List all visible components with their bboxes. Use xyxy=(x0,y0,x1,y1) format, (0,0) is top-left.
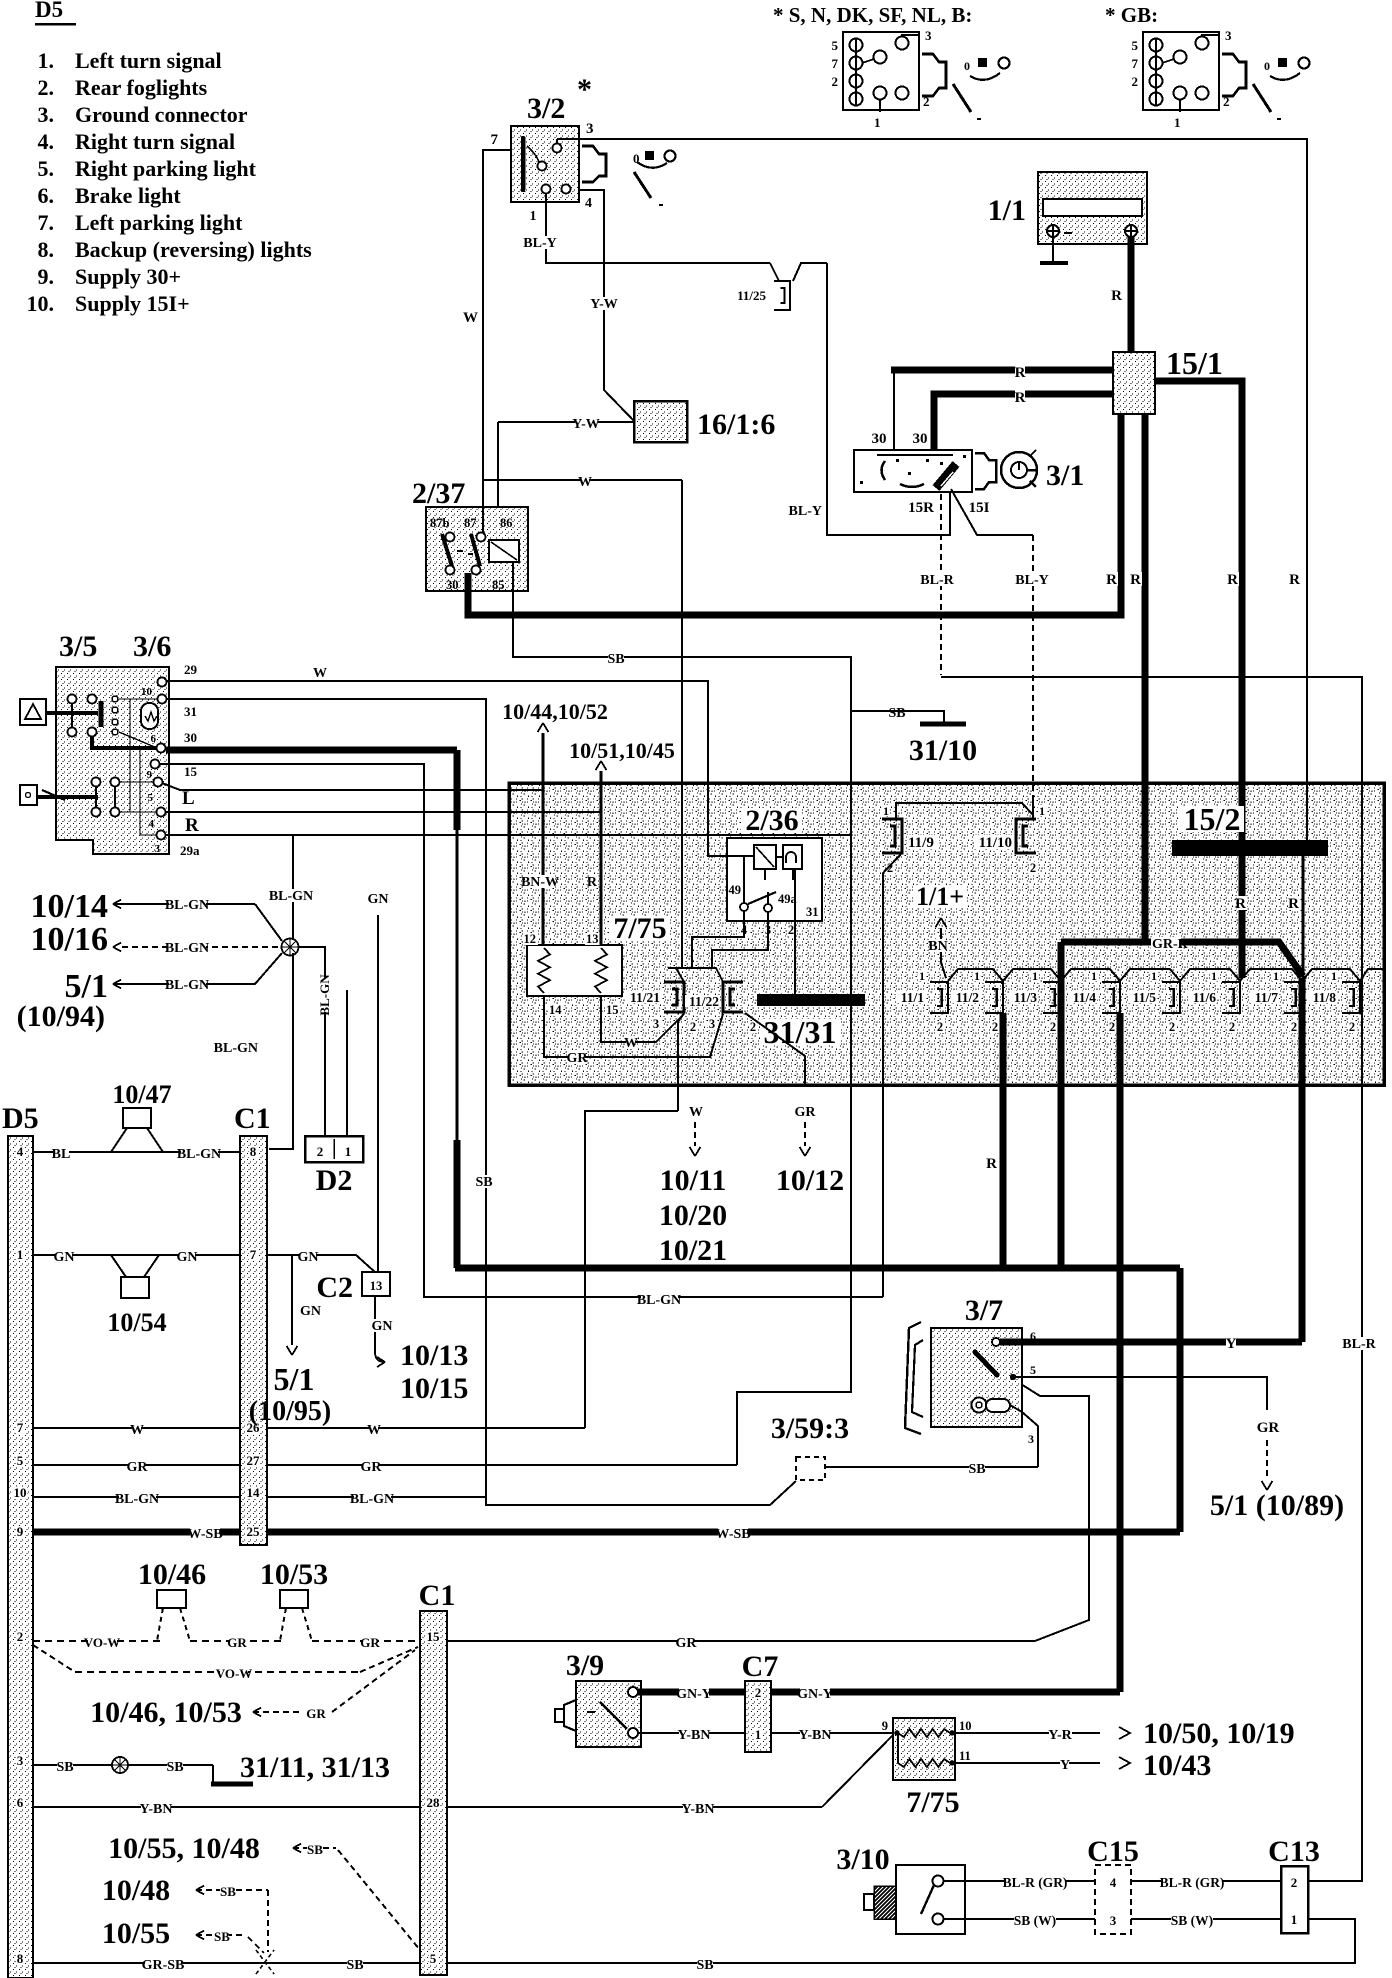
svg-text:7: 7 xyxy=(17,1420,24,1435)
svg-text:5/1 (10/89): 5/1 (10/89) xyxy=(1210,1489,1344,1522)
svg-text:8: 8 xyxy=(17,1951,24,1966)
wire 2/36 pin 3 to chain xyxy=(767,912,769,921)
wire W from 3/6 pin 29 xyxy=(166,681,708,838)
hazard feed bar xyxy=(46,711,98,715)
svg-text:1: 1 xyxy=(874,115,881,130)
connector bar C1 upper xyxy=(240,1136,267,1545)
svg-text:GR: GR xyxy=(127,1460,149,1475)
wire D2 pin 1 riser xyxy=(346,990,348,1136)
svg-text:BL-GN: BL-GN xyxy=(165,978,209,993)
lamp 10/53 box xyxy=(280,1590,308,1608)
svg-text:1: 1 xyxy=(530,209,537,224)
wire 11/9 pin 2 to BL-GN riser xyxy=(883,853,902,1297)
svg-text:10/15: 10/15 xyxy=(400,1372,468,1405)
wire 11/21 pin 2 down (W to 10/11) xyxy=(678,1013,684,1022)
splice symbol on SB row xyxy=(112,1757,128,1773)
connector 11/3 xyxy=(1043,982,1061,1013)
ground bar 31/31 xyxy=(757,994,865,1006)
svg-text:Supply 15I+: Supply 15I+ xyxy=(75,291,190,316)
svg-text:* GB:: * GB: xyxy=(1105,3,1158,27)
flasher 2/36 coil xyxy=(754,845,776,869)
svg-text:3: 3 xyxy=(709,1017,715,1031)
svg-text:14: 14 xyxy=(247,1485,261,1500)
wire 15/2 stub to 11/7 xyxy=(1302,856,1305,978)
svg-text:L: L xyxy=(182,788,195,809)
switch 3/10 box xyxy=(896,1865,965,1934)
svg-text:2/36: 2/36 xyxy=(745,804,798,837)
svg-text:GR: GR xyxy=(567,1051,589,1066)
wire to 10/14 xyxy=(255,904,282,941)
splice BL-GN xyxy=(282,939,299,956)
bus bar 15/2 label xyxy=(1179,806,1244,832)
svg-text:7: 7 xyxy=(1132,56,1139,71)
svg-text:4: 4 xyxy=(17,1144,24,1159)
lamp 10/53 dashed vee xyxy=(280,1608,286,1641)
lamp 10/46 box xyxy=(157,1590,186,1608)
ignition 3/1 key symbol xyxy=(1001,452,1037,488)
svg-text:9: 9 xyxy=(882,1719,888,1733)
svg-text:10/50, 10/19: 10/50, 10/19 xyxy=(1143,1717,1295,1750)
switch lower connector symbol xyxy=(20,785,37,805)
wire R with arrow 10/51,10/45 xyxy=(600,771,603,945)
svg-text:GN-Y: GN-Y xyxy=(676,1687,712,1702)
svg-text:SB (W): SB (W) xyxy=(1171,1913,1213,1928)
svg-text:(10/94): (10/94) xyxy=(17,1000,105,1033)
svg-text:31/31: 31/31 xyxy=(764,1014,837,1050)
svg-text:Y-R: Y-R xyxy=(1048,1728,1072,1743)
ignition 3/1 connector tab xyxy=(975,453,996,489)
svg-text:5: 5 xyxy=(1132,38,1139,53)
svg-text:31: 31 xyxy=(184,704,197,719)
switch 3/6 small contacts column xyxy=(112,696,118,702)
connector 11/21 xyxy=(664,982,684,1012)
svg-text:SB: SB xyxy=(220,1884,236,1899)
svg-text:Right parking light: Right parking light xyxy=(75,156,257,181)
module 1/1 ground stub xyxy=(1052,237,1054,262)
resistor 7/75b pin labels xyxy=(881,1720,890,1732)
svg-text:3: 3 xyxy=(1225,28,1232,43)
svg-text:W: W xyxy=(624,1036,638,1051)
svg-text:W: W xyxy=(463,310,478,326)
svg-text:11: 11 xyxy=(959,1749,971,1763)
svg-text:9.: 9. xyxy=(38,264,55,289)
svg-text:30: 30 xyxy=(872,431,887,447)
svg-text:11/1: 11/1 xyxy=(901,990,925,1005)
svg-text:GR-SB: GR-SB xyxy=(142,1958,185,1973)
svg-text:10/11: 10/11 xyxy=(660,1164,727,1197)
svg-text:13: 13 xyxy=(586,932,599,946)
resistor 7/75b elements xyxy=(898,1729,950,1737)
svg-text:3: 3 xyxy=(1028,1432,1034,1446)
wire BL-R (GR) C15 to C13 xyxy=(1131,1880,1281,1882)
svg-text:86: 86 xyxy=(500,516,513,530)
lamp 10/54 box xyxy=(121,1277,149,1298)
svg-text:49: 49 xyxy=(729,883,742,897)
svg-text:R: R xyxy=(986,1156,997,1172)
svg-text:2: 2 xyxy=(1291,1020,1297,1034)
svg-text:11/22: 11/22 xyxy=(689,994,719,1009)
svg-text:11/8: 11/8 xyxy=(1313,990,1337,1005)
svg-text:GN: GN xyxy=(372,1319,393,1334)
wire GR from 7/75 pin 14 to 11/22 pin 3 xyxy=(544,996,723,1057)
svg-text:3: 3 xyxy=(17,1753,24,1768)
wire 1/1+ BN arrow to 11/1 pin 1 xyxy=(941,928,946,978)
svg-text:10/46, 10/53: 10/46, 10/53 xyxy=(90,1696,242,1729)
wire 11/22 pin 2 down (GR to 10/12) xyxy=(745,1013,805,1085)
wire Y thick from 3/7 pin 6 xyxy=(1000,1339,1302,1346)
switch 3/7 pin 5 xyxy=(1010,1374,1016,1380)
wire 87 riser into 2/37 xyxy=(482,507,484,533)
svg-text:10/43: 10/43 xyxy=(1143,1749,1211,1782)
svg-text:W-SB: W-SB xyxy=(715,1527,750,1542)
svg-text:7: 7 xyxy=(491,132,499,148)
svg-text:10/16: 10/16 xyxy=(31,921,108,958)
svg-text:9: 9 xyxy=(147,769,153,781)
svg-text:11/5: 11/5 xyxy=(1133,990,1157,1005)
wire GN below C2 to 10/13 10/15 xyxy=(374,1296,376,1352)
switch 3/9 box xyxy=(576,1681,641,1747)
wire thick riser W-SB to bus xyxy=(1177,1268,1184,1532)
switch 3/5 contact circles lower xyxy=(92,778,101,787)
svg-text:GN-Y: GN-Y xyxy=(797,1687,833,1702)
svg-text:GR: GR xyxy=(306,1706,326,1721)
module 1/1 inner window xyxy=(1043,199,1142,216)
svg-text:3/5: 3/5 xyxy=(59,630,97,663)
svg-text:Backup (reversing) lights: Backup (reversing) lights xyxy=(75,237,312,262)
svg-text:GN: GN xyxy=(300,1304,321,1319)
svg-text:GR: GR xyxy=(361,1460,383,1475)
flasher 2/36 input wire xyxy=(708,838,744,903)
svg-text:10: 10 xyxy=(959,1719,972,1733)
svg-text:Y-BN: Y-BN xyxy=(799,1728,832,1743)
svg-text:3/7: 3/7 xyxy=(965,1294,1003,1327)
switch 3/7 lever xyxy=(975,1352,997,1375)
svg-text:SB (W): SB (W) xyxy=(1014,1913,1056,1928)
svg-text:SB: SB xyxy=(346,1958,363,1973)
connector 11/8 xyxy=(1342,982,1360,1013)
ground 31/10 stub xyxy=(851,711,944,722)
svg-text:BL-GN: BL-GN xyxy=(317,974,332,1016)
svg-text:Y-BN: Y-BN xyxy=(682,1802,715,1817)
svg-text:15I: 15I xyxy=(969,500,990,516)
svg-text:SB: SB xyxy=(56,1760,73,1775)
wire VO-W dashed bypass xyxy=(33,1645,75,1672)
svg-text:3.: 3. xyxy=(38,102,55,127)
svg-text:GR: GR xyxy=(795,1105,817,1120)
svg-text:BL-Y: BL-Y xyxy=(789,504,822,519)
svg-text:30: 30 xyxy=(446,578,459,592)
svg-text:R: R xyxy=(1289,572,1300,588)
svg-text:Left parking light: Left parking light xyxy=(75,210,243,235)
svg-text:11/25: 11/25 xyxy=(737,288,766,303)
svg-text:SB: SB xyxy=(214,1929,230,1944)
switch lower feed bar xyxy=(37,795,98,799)
wire GN branch to 5/1 (10/95) xyxy=(291,1255,293,1345)
lamp 10/47 vee xyxy=(111,1128,127,1152)
svg-text:3: 3 xyxy=(1110,1913,1117,1928)
bus bar 15/2 xyxy=(1172,840,1328,856)
wire GR-R xyxy=(1061,942,1303,976)
wire from 3/7 pin 5 to GR annotation xyxy=(1016,1377,1267,1410)
connector 11/4 xyxy=(1102,982,1120,1013)
svg-text:11/3: 11/3 xyxy=(1014,990,1038,1005)
svg-text:W: W xyxy=(578,475,592,490)
svg-text:10/55, 10/48: 10/55, 10/48 xyxy=(108,1832,260,1865)
svg-text:Right turn signal: Right turn signal xyxy=(75,129,235,154)
svg-text:3/9: 3/9 xyxy=(566,1649,604,1682)
connector variant S,N,DK,SF,NL,B diagram xyxy=(843,32,919,110)
svg-text:10/44,10/52: 10/44,10/52 xyxy=(502,699,608,724)
svg-text:SB: SB xyxy=(968,1462,985,1477)
svg-text:R: R xyxy=(1130,572,1141,588)
svg-text:Y-W: Y-W xyxy=(572,417,600,432)
wire GR dashed segment xyxy=(190,1640,282,1642)
svg-text:W: W xyxy=(130,1423,144,1438)
svg-text:Supply 30+: Supply 30+ xyxy=(75,264,181,289)
svg-text:(10/95): (10/95) xyxy=(249,1396,331,1427)
connector 11/1 xyxy=(930,982,948,1013)
wire BL-R long to C13 xyxy=(941,677,1362,1881)
switch 3/7 bracket xyxy=(905,1322,921,1434)
svg-text:W: W xyxy=(313,666,327,681)
wire W from 7/75 pin 15 to 11/21 pin 3 xyxy=(601,996,684,1042)
svg-text:3: 3 xyxy=(586,121,594,137)
connector bar C1 upper pin numbers xyxy=(249,1146,258,1158)
svg-text:10/21: 10/21 xyxy=(659,1234,727,1267)
splice X on GR-SB row xyxy=(256,1950,274,1974)
svg-text:2: 2 xyxy=(1229,1020,1235,1034)
svg-text:10: 10 xyxy=(141,686,153,698)
svg-text:11/10: 11/10 xyxy=(979,835,1012,851)
connector 11/5 xyxy=(1162,982,1180,1013)
wire thick 15/1 to 15/2 bar xyxy=(1142,414,1149,942)
connector D2 box xyxy=(305,1136,363,1162)
svg-text:3/2: 3/2 xyxy=(527,92,565,125)
svg-text:Ground connector: Ground connector xyxy=(75,102,248,127)
svg-text:C13: C13 xyxy=(1268,1835,1320,1868)
wire Y-BN 3/9 to C7 xyxy=(638,1732,745,1734)
svg-text:11/7: 11/7 xyxy=(1255,990,1279,1005)
svg-text:2: 2 xyxy=(317,1144,324,1159)
svg-text:87: 87 xyxy=(464,516,477,530)
svg-text:Left turn signal: Left turn signal xyxy=(75,48,222,73)
svg-text:SB: SB xyxy=(166,1760,183,1775)
svg-text:8.: 8. xyxy=(38,237,55,262)
svg-text:4.: 4. xyxy=(38,129,55,154)
switch 3/6 internal thick link xyxy=(92,736,157,748)
switch 3/7 box xyxy=(931,1328,1022,1427)
svg-text:5/1: 5/1 xyxy=(274,1361,315,1397)
wire W-SB thick row xyxy=(33,1529,240,1536)
switch 3/2 box xyxy=(511,126,579,202)
wire Y to 10/43 xyxy=(955,1762,1100,1764)
svg-text:SB: SB xyxy=(475,1175,492,1190)
switch 3/7 bulb xyxy=(972,1398,987,1413)
svg-text:85: 85 xyxy=(492,578,505,592)
connector 11/7 xyxy=(1284,982,1302,1013)
svg-text:11/9: 11/9 xyxy=(908,835,934,851)
svg-text:SB: SB xyxy=(307,1842,323,1857)
relay 2/37 levers xyxy=(442,534,452,566)
wire W row xyxy=(33,1427,240,1429)
svg-text:GR: GR xyxy=(676,1636,698,1651)
wire GR row C1-15 to 3/7 pin 5 xyxy=(447,1640,1035,1642)
svg-text:15: 15 xyxy=(606,1003,619,1017)
svg-text:R: R xyxy=(185,815,199,836)
connector 11/2 xyxy=(985,982,1003,1013)
wire Y-W horizontal into 16/1:6 xyxy=(498,421,634,423)
svg-text:D5: D5 xyxy=(35,0,63,22)
wire BL-Y to 11/9 and 11/10 pins 1 xyxy=(896,803,1033,819)
svg-text:2: 2 xyxy=(1291,1875,1298,1890)
svg-text:1.: 1. xyxy=(38,48,55,73)
wire SB from 3/59:3 to 3/7 pin 3 xyxy=(825,1466,1038,1468)
svg-text:R: R xyxy=(1106,572,1117,588)
svg-text:15/2: 15/2 xyxy=(1184,801,1241,837)
ground 31/10 bar xyxy=(920,722,966,727)
svg-text:5: 5 xyxy=(17,1453,24,1468)
wire dashed to 10/16 xyxy=(122,946,281,948)
svg-text:7: 7 xyxy=(832,56,839,71)
svg-text:Brake light: Brake light xyxy=(75,183,181,208)
svg-text:R: R xyxy=(587,875,598,890)
wire GR riser to ground bar 31/31 xyxy=(737,1006,851,1465)
svg-text:15: 15 xyxy=(184,764,198,779)
svg-text:16/1:6: 16/1:6 xyxy=(697,408,775,441)
svg-text:6.: 6. xyxy=(38,183,55,208)
svg-text:2: 2 xyxy=(1050,1020,1056,1034)
svg-text:5: 5 xyxy=(832,38,839,53)
svg-text:2: 2 xyxy=(992,1020,998,1034)
wire BL-Y from 15I xyxy=(951,489,1033,535)
wire thick bus y1268 xyxy=(455,1265,1180,1272)
wire R from 1/1 to 15/1 xyxy=(1128,237,1135,352)
svg-text:3/59:3: 3/59:3 xyxy=(771,1412,849,1445)
connector bar D5 xyxy=(8,1136,33,1978)
svg-text:2: 2 xyxy=(750,1020,756,1034)
svg-text:R: R xyxy=(1015,365,1026,381)
svg-text:7/75: 7/75 xyxy=(906,1786,959,1819)
module 1/1 left terminal xyxy=(1047,225,1059,237)
switch 3/7 pin 6 xyxy=(992,1338,1000,1346)
svg-text:6: 6 xyxy=(151,733,157,745)
svg-text:5: 5 xyxy=(1030,1363,1036,1377)
wire BL-Y from 3/2 pin 1 xyxy=(546,193,770,263)
svg-text:1: 1 xyxy=(1039,804,1045,818)
resistor 7/75b box xyxy=(893,1718,955,1780)
wire BL row with 10/47 xyxy=(33,1151,240,1153)
svg-text:BL-R: BL-R xyxy=(1342,1337,1376,1352)
svg-text:29: 29 xyxy=(184,662,198,677)
svg-text:2: 2 xyxy=(755,1685,762,1700)
svg-text:Y-BN: Y-BN xyxy=(678,1728,711,1743)
svg-text:30: 30 xyxy=(913,431,928,447)
svg-text:28: 28 xyxy=(427,1795,441,1810)
svg-text:3/6: 3/6 xyxy=(133,630,171,663)
svg-text:9: 9 xyxy=(17,1524,24,1539)
switch 3/6 internal wires xyxy=(119,698,158,700)
resistor block 7/75 pin labels xyxy=(523,933,538,945)
svg-text:3: 3 xyxy=(925,28,932,43)
svg-text:SB: SB xyxy=(607,652,624,667)
ground bar 31/31 label xyxy=(760,1019,841,1045)
svg-text:31: 31 xyxy=(806,905,819,919)
svg-text:Y-W: Y-W xyxy=(590,297,618,312)
svg-text:4: 4 xyxy=(585,196,592,211)
svg-text:10.: 10. xyxy=(27,291,55,316)
connector bar C1 lower pin numbers xyxy=(425,1631,440,1643)
wire Y-W from 3/2 pin 4 xyxy=(579,190,634,421)
svg-text:BL-Y: BL-Y xyxy=(1015,573,1048,588)
connector C2 box xyxy=(362,1272,390,1296)
wire SB row to ground xyxy=(33,1764,213,1766)
svg-text:2: 2 xyxy=(17,1629,24,1644)
switch 3/10 button xyxy=(864,1894,874,1910)
svg-text:BL-GN: BL-GN xyxy=(165,898,209,913)
svg-text:10/53: 10/53 xyxy=(260,1558,328,1591)
svg-text:2: 2 xyxy=(1132,74,1139,89)
switch 3/9 connector xyxy=(564,1700,576,1731)
svg-text:2: 2 xyxy=(832,74,839,89)
svg-text:10/51,10/45: 10/51,10/45 xyxy=(569,738,675,763)
svg-text:GR: GR xyxy=(227,1635,247,1650)
svg-text:4: 4 xyxy=(1110,1875,1117,1890)
svg-text:BL-GN: BL-GN xyxy=(165,941,209,956)
ignition 3/1 inner top line xyxy=(877,454,953,456)
svg-text:C1: C1 xyxy=(419,1579,456,1612)
svg-text:31/11, 31/13: 31/11, 31/13 xyxy=(240,1751,390,1784)
connector C13 box xyxy=(1281,1866,1308,1933)
connector C15 box xyxy=(1095,1865,1131,1934)
svg-text:* S, N, DK, SF, NL, B:: * S, N, DK, SF, NL, B: xyxy=(773,3,972,27)
svg-text:3/1: 3/1 xyxy=(1046,459,1084,492)
svg-text:10/46: 10/46 xyxy=(138,1558,206,1591)
wire 11/4 pin 2 thick to GN-Y xyxy=(1117,1013,1124,1692)
svg-text:*: * xyxy=(577,73,592,106)
svg-text:14: 14 xyxy=(549,1003,562,1017)
wire R from 3/6 xyxy=(166,811,601,813)
connector 11/6 xyxy=(1222,982,1240,1013)
svg-text:0: 0 xyxy=(1264,59,1270,73)
svg-text:13: 13 xyxy=(370,1279,383,1293)
wire GN row xyxy=(33,1254,240,1256)
svg-text:GR: GR xyxy=(1257,1420,1280,1436)
module 1/1 box xyxy=(1038,172,1147,244)
wire BL-R dashed from 15R xyxy=(940,494,942,675)
svg-text:VO-W: VO-W xyxy=(216,1666,253,1681)
harness area (gray box) xyxy=(509,783,1384,1085)
wire Y-BN C7 to 7/75 xyxy=(771,1732,893,1734)
svg-text:29a: 29a xyxy=(180,843,200,858)
flasher 2/36 label xyxy=(741,808,802,833)
svg-text:SB: SB xyxy=(696,1958,713,1973)
svg-text:R: R xyxy=(1288,896,1299,912)
svg-text:1: 1 xyxy=(1291,1912,1298,1927)
svg-text:3/10: 3/10 xyxy=(836,1843,889,1876)
svg-text:2.: 2. xyxy=(38,75,55,100)
wire GN vertical xyxy=(377,915,379,1272)
svg-text:C2: C2 xyxy=(316,1271,353,1304)
junction 15/1 box xyxy=(1113,352,1155,414)
svg-text:R: R xyxy=(1015,390,1026,406)
svg-text:10/54: 10/54 xyxy=(107,1308,166,1337)
svg-text:C15: C15 xyxy=(1087,1835,1139,1868)
svg-text:25: 25 xyxy=(247,1524,261,1539)
wire W drop x682 to 11/21 chain xyxy=(681,480,683,968)
svg-text:8: 8 xyxy=(250,1144,257,1159)
ignition 3/1 box xyxy=(854,450,972,492)
connector bar D5 pin numbers xyxy=(16,1146,25,1158)
